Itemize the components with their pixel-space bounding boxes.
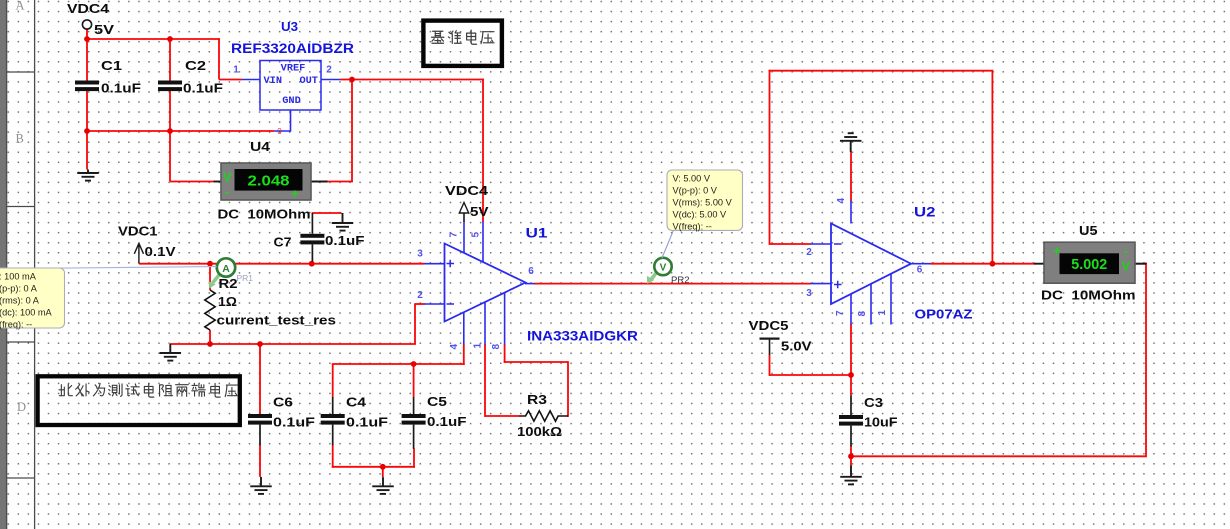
svg-text:0.1uF: 0.1uF	[183, 82, 223, 96]
wire R3 right up	[567, 361, 569, 417]
svg-text:0.1uF: 0.1uF	[427, 415, 467, 429]
wire to U4 left terminal	[170, 181, 214, 183]
U2 pin3 stub	[810, 283, 832, 285]
tooltip PR2	[667, 170, 743, 232]
probe PR2 circle	[654, 258, 671, 275]
U3 pin1 stub	[242, 79, 260, 81]
svg-text:1Ω: 1Ω	[218, 295, 237, 309]
ruler divider 3	[7, 341, 35, 343]
U5 right terminal	[1135, 263, 1147, 265]
annotation box reference voltage	[423, 21, 502, 66]
svg-text:2: 2	[326, 65, 332, 76]
svg-text:OP07AZ: OP07AZ	[915, 307, 973, 322]
svg-text:V(dc): 5.00 V: V(dc): 5.00 V	[673, 210, 727, 220]
VDC4 arrow stem	[463, 213, 465, 222]
wire U2 pin7 down	[850, 324, 852, 395]
junction	[380, 464, 386, 470]
svg-text:V: V	[1122, 260, 1131, 274]
wire to U1 pin8	[504, 361, 568, 363]
ground at C7	[332, 213, 354, 231]
svg-text:V(p-p): 0 V: V(p-p): 0 V	[673, 186, 718, 196]
wire U2 output to U5	[930, 263, 1035, 265]
wire down to U4 plus	[351, 80, 353, 182]
U2 minus sign	[834, 243, 842, 245]
power terminal VDC4 circle	[82, 20, 91, 29]
wire net0 rail	[86, 130, 274, 132]
svg-text:R3: R3	[527, 393, 547, 407]
wire U3 OUT rail	[340, 79, 484, 81]
C7 bottom lead	[311, 244, 313, 261]
ground at C6	[250, 477, 272, 494]
U2 pin1 stub	[890, 273, 892, 324]
probe PR1 circle	[217, 258, 235, 276]
svg-text:5.0V: 5.0V	[781, 340, 812, 354]
svg-text:2.048: 2.048	[248, 173, 290, 189]
capacitor C1	[75, 81, 99, 92]
junction	[848, 453, 854, 459]
svg-text:VREF: VREF	[281, 63, 306, 75]
svg-text:A: A	[222, 263, 230, 275]
C4 bottom lead	[332, 425, 334, 446]
wire up to U1 pin2	[414, 303, 416, 344]
svg-text:U3: U3	[281, 19, 298, 34]
text ci chu wei ce shi dian zu liang duan dian ya (voltage across test resistor)	[59, 383, 238, 397]
ground at C1	[77, 170, 99, 181]
svg-text:I(dc): 100 mA: I(dc): 100 mA	[0, 308, 53, 318]
svg-text:current_test_res: current_test_res	[217, 314, 337, 328]
svg-text:5V: 5V	[470, 205, 489, 219]
wire C2 top	[169, 39, 171, 81]
wire to R3 left	[485, 415, 520, 417]
U1 pin1 stub	[484, 302, 486, 344]
svg-text:2: 2	[417, 290, 423, 301]
svg-text:V: V	[223, 171, 232, 185]
svg-text:C7: C7	[274, 236, 292, 250]
ground at C4 C5	[372, 477, 394, 494]
wire C4 bottom	[332, 445, 334, 468]
C3 bottom lead	[850, 426, 852, 447]
wire to U3 VIN stub	[219, 79, 242, 81]
svg-text:0.1V: 0.1V	[145, 245, 177, 259]
svg-text:U5: U5	[1079, 224, 1098, 238]
capacitor C5	[402, 414, 426, 425]
svg-text:VDC4: VDC4	[445, 184, 488, 198]
svg-text:U4: U4	[250, 140, 270, 154]
wire C4 C5 ground rail	[332, 466, 415, 468]
svg-text:I(p-p): 0 A: I(p-p): 0 A	[0, 284, 38, 294]
wire C1 bottom to ground	[86, 91, 88, 170]
svg-text:C3: C3	[864, 396, 883, 410]
wire down to U3 pin1	[218, 38, 220, 79]
junction	[84, 128, 90, 134]
U1 pin2 stub	[424, 303, 445, 305]
U2 pin4 stub	[850, 201, 852, 224]
junction	[167, 36, 173, 42]
wire U1 pin1 down	[484, 344, 486, 417]
wire ground stub	[382, 467, 384, 477]
junction	[309, 261, 315, 267]
wire U1 output to U2 plus	[534, 283, 811, 285]
resistor R2	[205, 290, 215, 330]
capacitor C2	[158, 81, 182, 92]
C5 top lead	[413, 397, 415, 414]
wire U2 pin4 to top ground	[850, 152, 852, 202]
probe PR1 arrow	[213, 275, 220, 284]
wire feedback right vertical	[991, 71, 993, 264]
wire U1 pin4 down	[463, 344, 465, 365]
ruler inner border line	[34, 0, 36, 529]
svg-text:GND: GND	[282, 95, 301, 107]
ground above U2 (inverted)	[840, 133, 862, 152]
svg-text:5: 5	[471, 232, 482, 238]
U1 pin6 stub	[525, 283, 535, 285]
C6 bottom lead	[259, 425, 261, 446]
svg-text:-: -	[225, 184, 229, 199]
ground at C3	[840, 466, 862, 485]
svg-text:100kΩ: 100kΩ	[517, 425, 562, 439]
svg-text:1: 1	[473, 343, 484, 349]
svg-text:V: 5.00 V: V: 5.00 V	[673, 174, 711, 184]
op-amp U1 triangle	[445, 244, 526, 322]
wire down to U1 pin5	[482, 79, 484, 222]
svg-text:2: 2	[806, 247, 812, 258]
svg-text:V(freq): --: V(freq): --	[673, 222, 712, 232]
svg-text:4: 4	[449, 344, 460, 350]
annotation box test resistor voltage	[38, 376, 240, 425]
svg-text:C4: C4	[346, 396, 366, 410]
wire C4 C5 rail	[332, 363, 465, 365]
U1 pin5 stub	[482, 222, 484, 263]
svg-text:DC 10MOhm: DC 10MOhm	[1041, 288, 1136, 303]
svg-text:DC 10MOhm: DC 10MOhm	[218, 207, 311, 222]
wire C3 bottom to ground	[850, 446, 852, 466]
svg-text:1: 1	[233, 65, 239, 76]
VDC5 bar	[760, 337, 780, 339]
power VDC4 arrow at U1	[459, 203, 468, 214]
U5 left terminal	[1034, 263, 1045, 265]
wire C6 bottom to ground	[259, 445, 261, 477]
svg-text:D: D	[17, 400, 26, 414]
U4 right terminal	[311, 181, 328, 183]
wire U5 right terminal	[1135, 263, 1147, 265]
wire C5 bottom	[413, 448, 415, 467]
ground at R2 rail	[160, 344, 182, 361]
svg-text:V(rms): 5.00 V: V(rms): 5.00 V	[673, 198, 733, 208]
VDC5 stem	[769, 339, 771, 355]
wire C7 top to ground	[312, 212, 342, 214]
U2 pin2 stub	[810, 243, 832, 245]
svg-text:C5: C5	[427, 395, 447, 409]
C4 top lead	[332, 397, 334, 414]
capacitor C6	[248, 414, 272, 425]
U1 pin4 stub	[463, 313, 465, 345]
wire down to C6	[259, 344, 261, 414]
wire U5 return vertical	[1145, 263, 1147, 457]
svg-text:0.1uF: 0.1uF	[101, 82, 141, 96]
svg-text:-: -	[1124, 244, 1128, 259]
svg-text:7: 7	[449, 232, 460, 238]
wire VDC4 to C1 top	[86, 30, 88, 81]
U1 minus sign	[447, 303, 455, 305]
ruler divider 2	[7, 206, 35, 208]
wire feedback left vertical	[769, 70, 771, 245]
wire R2 bottom	[209, 330, 211, 345]
C3 top lead	[850, 395, 852, 415]
svg-text:VDC4: VDC4	[67, 2, 109, 16]
wire VDC5 rail	[770, 374, 852, 376]
PR1 tooltip leader	[0, 267, 217, 269]
svg-text:8: 8	[857, 311, 868, 317]
svg-text:PR2: PR2	[671, 275, 689, 286]
svg-text:OUT: OUT	[299, 75, 318, 87]
svg-text:5.002: 5.002	[1071, 257, 1107, 273]
op-amp U3 REF3320 box	[260, 61, 321, 111]
svg-text:I: 100 mA: I: 100 mA	[0, 272, 37, 282]
U1 pin8 stub	[504, 293, 506, 345]
svg-text:+: +	[291, 186, 299, 201]
svg-text:0.1uF: 0.1uF	[346, 416, 388, 430]
svg-text:R2: R2	[219, 277, 238, 291]
capacitor C3	[839, 415, 863, 426]
C5 bottom lead	[413, 425, 415, 449]
wire down to C5 top	[413, 364, 415, 397]
ruler divider 1	[7, 71, 35, 73]
junction	[990, 261, 996, 267]
junction	[848, 372, 854, 378]
junction	[167, 128, 173, 134]
svg-text:4: 4	[836, 198, 847, 204]
wire U1 pin8 down	[504, 344, 506, 363]
U1 pin3 stub	[424, 263, 445, 265]
svg-text:3: 3	[417, 249, 423, 260]
U3 pin2 stub	[321, 79, 340, 81]
junction	[84, 36, 90, 42]
svg-text:PR1: PR1	[237, 273, 254, 283]
wire main input line	[139, 263, 425, 265]
source VDC1 arrow	[134, 243, 143, 263]
wire feedback top rail	[769, 70, 994, 72]
wire C2 bottom / U4 minus branch	[169, 91, 171, 182]
U1 pin7 stub	[463, 222, 465, 254]
junction	[349, 77, 355, 83]
U2 pin8 stub	[870, 283, 872, 324]
svg-text:I(rms): 0 A: I(rms): 0 A	[0, 296, 40, 306]
wire to R2 top	[209, 264, 211, 290]
svg-text:C6: C6	[273, 396, 293, 410]
svg-text:VIN: VIN	[264, 75, 283, 87]
capacitor C7	[300, 234, 324, 245]
svg-text:1: 1	[877, 310, 888, 316]
wire U1 pin2 stub join	[415, 303, 425, 305]
svg-text:VDC1: VDC1	[118, 225, 158, 239]
svg-text:6: 6	[528, 266, 534, 277]
svg-text:+: +	[1053, 243, 1061, 258]
svg-text:7: 7	[835, 310, 846, 316]
svg-text:0: 0	[277, 127, 282, 136]
tooltip PR1	[0, 268, 65, 330]
op-amp U2 triangle	[831, 224, 911, 305]
svg-text:8: 8	[491, 344, 502, 350]
svg-text:V: V	[660, 263, 667, 274]
U4 left terminal	[214, 181, 222, 183]
U2 pin7 stub	[850, 294, 852, 325]
wire down to C4 top	[332, 364, 334, 397]
U2 plus sign	[834, 281, 842, 289]
sheet border strip	[0, 0, 7, 529]
svg-text:I(freq): --: I(freq): --	[0, 320, 32, 330]
junction	[257, 341, 263, 347]
capacitor C4	[321, 414, 345, 425]
junction	[207, 261, 213, 267]
U3 GND stub	[274, 110, 291, 131]
svg-text:C1: C1	[101, 59, 122, 73]
wire R2 bottom rail	[170, 343, 416, 345]
wire return rail to C3 node	[850, 455, 1146, 457]
svg-text:INA333AIDGKR: INA333AIDGKR	[527, 329, 638, 344]
PR2 tooltip leader	[662, 230, 674, 258]
svg-text:REF3320AIDBZR: REF3320AIDBZR	[231, 41, 354, 56]
svg-text:10uF: 10uF	[864, 416, 898, 430]
C7 top lead	[311, 213, 313, 234]
svg-text:6: 6	[917, 265, 923, 276]
voltmeter U4	[221, 163, 311, 201]
svg-text:B: B	[16, 132, 24, 146]
wire to U2 minus	[770, 243, 811, 245]
text ji zhun dian ya (reference voltage)	[432, 30, 494, 44]
junction	[207, 341, 213, 347]
svg-text:VDC5: VDC5	[749, 319, 789, 333]
wire VDC5 down	[769, 354, 771, 376]
junction	[411, 361, 417, 367]
voltmeter U5	[1044, 242, 1135, 283]
svg-text:5V: 5V	[94, 23, 115, 37]
svg-text:A: A	[16, 0, 25, 13]
wire U4 right terminal to rail	[327, 181, 353, 183]
U1 plus sign	[447, 260, 455, 268]
ruler divider 4	[7, 477, 35, 479]
resistor R3	[520, 411, 569, 421]
svg-text:0.1uF: 0.1uF	[273, 416, 315, 430]
svg-text:U2: U2	[914, 205, 936, 220]
U2 pin6 stub	[911, 263, 931, 265]
wire top rail VDC4	[86, 38, 220, 40]
svg-text:3: 3	[806, 288, 812, 299]
svg-text:0.1uF: 0.1uF	[325, 234, 365, 248]
probe PR2 arrow	[652, 273, 657, 280]
svg-text:U1: U1	[526, 226, 549, 241]
svg-text:C2: C2	[185, 59, 206, 73]
